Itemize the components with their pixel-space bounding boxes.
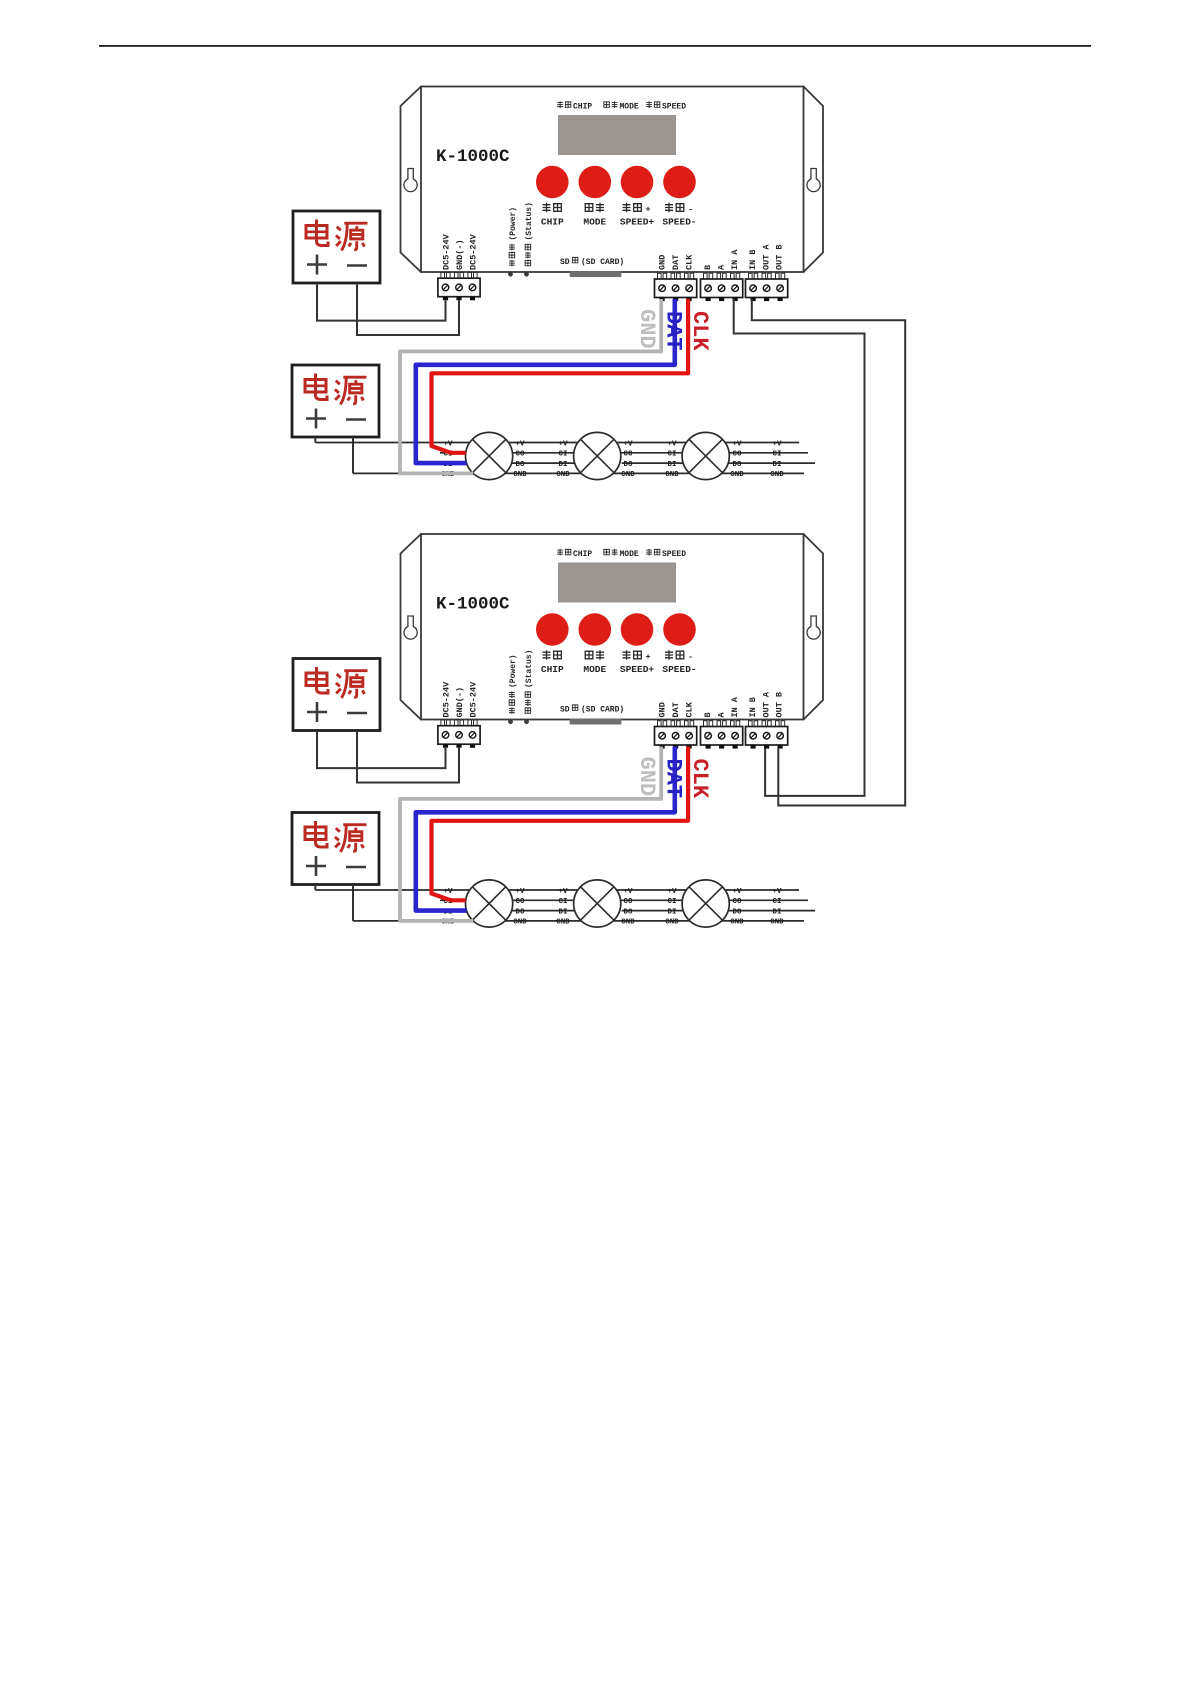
button MODE — [579, 166, 612, 199]
svg-text:CI: CI — [667, 451, 676, 459]
signal terminal block GND/DAT/CLK — [655, 273, 697, 301]
header labels above LCD — [557, 101, 686, 111]
indicator label (Status) vertical — [525, 202, 534, 266]
svg-text:B: B — [703, 265, 713, 270]
signal terminal block INB/OUTA/OUTB — [746, 273, 788, 301]
svg-text:(Status): (Status) — [525, 202, 534, 240]
pixel pin labels — [441, 440, 784, 479]
power supply PSU1 — [293, 211, 380, 283]
svg-text:DI: DI — [667, 461, 676, 469]
svg-text:CI: CI — [772, 451, 781, 459]
svg-text:GND(-): GND(-) — [455, 239, 465, 270]
button CHIP — [536, 166, 569, 199]
left mounting wing — [401, 87, 422, 273]
svg-text:-: - — [688, 205, 693, 215]
button SPEED+ — [621, 166, 654, 199]
pixel bus row CO/CI — [440, 452, 808, 454]
svg-text:CO: CO — [515, 451, 525, 459]
button SPEED- — [663, 166, 696, 199]
svg-text:CI: CI — [558, 451, 567, 459]
svg-text:CO: CO — [623, 451, 633, 459]
svg-text:GND: GND — [665, 471, 679, 479]
left keyhole — [404, 169, 417, 192]
status LED dot — [524, 272, 529, 277]
svg-text:GND: GND — [770, 471, 784, 479]
power supply PSU2 — [292, 365, 379, 437]
svg-text:SD: SD — [560, 258, 570, 267]
svg-text:GND: GND — [621, 471, 635, 479]
controller unit 2 (duplicate of unit 1) — [292, 534, 823, 927]
LCD display — [558, 115, 676, 155]
svg-text:+V: +V — [732, 440, 742, 448]
svg-text:+V: +V — [443, 440, 453, 448]
svg-text:(SD CARD): (SD CARD) — [581, 258, 624, 267]
svg-text:CLK: CLK — [684, 254, 694, 270]
wire unit1 IN A to unit2 OUT A — [734, 299, 865, 796]
svg-text:SPEED: SPEED — [662, 103, 686, 112]
svg-text:OUT B: OUT B — [775, 244, 785, 270]
wire CLK red — [432, 299, 689, 453]
wire PSU1 - to GND(-) — [357, 283, 459, 335]
wire unit1 IN B to unit2 OUT B — [752, 299, 905, 806]
svg-text:DI: DI — [558, 461, 567, 469]
svg-text:GND: GND — [556, 471, 570, 479]
pixel bus row DO/DI — [512, 462, 815, 464]
svg-text:CHIP: CHIP — [573, 103, 592, 112]
svg-text:DAT: DAT — [661, 311, 686, 351]
pixel lamp 2 — [574, 432, 621, 479]
power LED dot — [508, 272, 513, 277]
svg-text:GND: GND — [657, 255, 667, 270]
svg-text:DO: DO — [623, 461, 633, 469]
svg-text:+V: +V — [623, 440, 633, 448]
svg-text:DC5-24V: DC5-24V — [469, 233, 479, 270]
pixel bus row +V — [315, 442, 799, 444]
wire PSU2 + to pixel +V — [314, 437, 316, 443]
svg-text:CHIP: CHIP — [541, 217, 564, 228]
svg-text:CO: CO — [732, 451, 742, 459]
svg-text:+: + — [646, 205, 651, 215]
svg-text:DO: DO — [515, 461, 525, 469]
terminal pin labels — [442, 233, 785, 270]
SD card slot — [570, 271, 622, 277]
button labels — [541, 203, 697, 228]
wire GND gray — [400, 299, 661, 473]
controller K-1000C body — [401, 87, 824, 273]
svg-text:+V: +V — [667, 440, 677, 448]
svg-text:DAT: DAT — [671, 255, 681, 270]
wire DAT blue — [416, 299, 675, 463]
svg-text:GND: GND — [634, 309, 659, 349]
svg-text:+V: +V — [772, 440, 782, 448]
svg-text:MODE: MODE — [583, 217, 606, 228]
svg-text:MODE: MODE — [620, 103, 639, 112]
svg-text:DO: DO — [732, 461, 742, 469]
svg-text:DC5-24V: DC5-24V — [442, 233, 452, 270]
signal terminal block B/A/INA — [701, 273, 743, 301]
svg-text:K-1000C: K-1000C — [436, 147, 510, 167]
power terminal block — [438, 273, 480, 301]
svg-text:SPEED+: SPEED+ — [620, 217, 655, 228]
svg-text:+V: +V — [515, 440, 525, 448]
svg-text:(Power): (Power) — [509, 207, 518, 241]
svg-text:SPEED-: SPEED- — [662, 217, 696, 228]
right keyhole — [807, 169, 820, 192]
svg-text:+V: +V — [558, 440, 568, 448]
svg-text:CLK: CLK — [687, 311, 712, 351]
pixel bus row GND — [353, 472, 804, 474]
SD card label — [560, 257, 624, 267]
svg-text:IN B: IN B — [748, 250, 758, 270]
wire PSU2 - to pixel GND — [352, 437, 354, 473]
svg-text:OUT A: OUT A — [761, 244, 771, 270]
svg-text:IN A: IN A — [730, 249, 740, 270]
svg-text:DI: DI — [772, 461, 781, 469]
pixel lamp 1 — [466, 432, 513, 479]
svg-text:GND: GND — [730, 471, 744, 479]
page top rule — [99, 45, 1091, 47]
svg-text:A: A — [716, 264, 726, 270]
pixel lamp 3 — [682, 432, 729, 479]
right mounting wing — [804, 87, 824, 273]
indicator label (Power) vertical — [509, 207, 518, 267]
svg-text:GND: GND — [513, 471, 527, 479]
wire PSU1 + to DC5-24V — [317, 283, 446, 321]
